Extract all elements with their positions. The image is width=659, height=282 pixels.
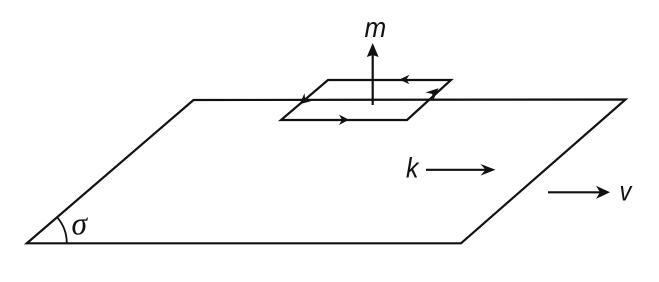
current arrow on loop bottom edge (rightward) [339,115,349,125]
label k [406,157,419,178]
current arrow on loop left edge (down-left) [300,93,312,104]
angle arc at sigma corner [57,217,67,243]
current arrow on loop right edge (up-right) [426,88,439,101]
current loop (small parallelogram) [281,80,451,120]
label m [365,22,385,37]
velocity arrow v [548,191,601,193]
magnetic moment arrow m (vertical) [372,55,374,105]
current arrow on loop top edge (leftward) [399,75,409,85]
charged plane (parallelogram sheet) [27,100,626,244]
wave vector arrow k [426,169,486,171]
label sigma [72,218,88,235]
label v [621,186,633,201]
